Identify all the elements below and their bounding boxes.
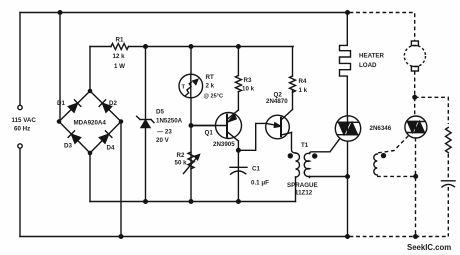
wire Q1 collector down (237, 141, 239, 150)
diode D2 (99, 100, 112, 113)
svg-text:SeekIC.com: SeekIC.com (407, 243, 451, 252)
node dashed junction dot (413, 96, 417, 100)
node triac bottom rail (346, 235, 350, 239)
wire timing node to Q2 emitter (238, 123, 266, 150)
node R3 top (237, 45, 241, 49)
svg-text:D5: D5 (156, 109, 164, 116)
wire to R1 (90, 46, 111, 48)
node bridge right corner (119, 120, 122, 123)
gate coil for triac2 (374, 154, 377, 175)
svg-text:R4: R4 (299, 78, 307, 85)
wire common rail (90, 201, 296, 203)
svg-text:Q1: Q1 (205, 130, 214, 137)
node bridge top corner (88, 89, 91, 92)
triac TR1 2N6346 (335, 116, 360, 141)
wire dashed gate coil bottom (377, 175, 416, 177)
wire Q1 base (191, 125, 227, 127)
zener D5 1N5250A (137, 116, 154, 127)
svg-text:D3: D3 (64, 143, 72, 150)
svg-text:2 k: 2 k (206, 83, 215, 90)
wire left vertical to upper terminal (19, 13, 21, 106)
node D5 top (144, 45, 148, 49)
resistor R3 10k (235, 76, 241, 92)
svg-text:LOAD: LOAD (359, 62, 377, 69)
svg-text:12 k: 12 k (113, 53, 126, 60)
svg-text:@ 25°C: @ 25°C (204, 94, 224, 100)
svg-text:R2: R2 (177, 152, 185, 159)
snubber capacitor (442, 181, 456, 187)
node RT top (189, 45, 193, 49)
motor alternate load dashed circle (404, 45, 425, 66)
node D5 bottom (144, 200, 148, 204)
wire dashed snubber lower (447, 154, 449, 180)
node bridge left corner (57, 120, 60, 123)
wire T1 secondary top to triac gate (310, 139, 340, 154)
snubber resistor (446, 127, 452, 152)
node T1 secondary polarity dot (313, 154, 317, 158)
wire Q2 B1 to T1 primary (292, 133, 296, 154)
svg-text:MDA920A4: MDA920A4 (74, 120, 107, 127)
triac TR2 2N6346 (405, 116, 427, 138)
svg-text:R3: R3 (244, 77, 252, 84)
svg-text:1N5250A: 1N5250A (156, 118, 183, 125)
wire dashed junction to triac2 (414, 97, 416, 116)
node bridge bottom rail junction (119, 235, 123, 239)
svg-text:T: T (182, 85, 186, 91)
node bridge bottom corner (88, 151, 91, 154)
resistor R1 12k 1W (111, 44, 129, 50)
capacitor C1 0.1uF (230, 150, 247, 201)
heater load element (340, 13, 351, 116)
wire dashed junction to snubber (415, 97, 449, 124)
wire T1 secondary bottom to MT1 line (310, 177, 348, 178)
wire triac MT2 (347, 116, 349, 123)
svg-text:2N4870: 2N4870 (266, 98, 288, 105)
rheostat R2 50k (184, 152, 200, 174)
terminal lower 115VAC (18, 144, 22, 148)
svg-text:2N6346: 2N6346 (370, 125, 392, 132)
wire triac MT1 to bottom rail (347, 141, 349, 236)
svg-text:HEATER: HEATER (359, 53, 385, 60)
wire bridge right corner to bottom rail (120, 122, 122, 237)
svg-text:— 23: — 23 (157, 129, 172, 136)
svg-text:11Z12: 11Z12 (295, 190, 313, 197)
node R2 bottom (189, 200, 193, 204)
svg-text:20 V: 20 V (156, 137, 170, 144)
svg-text:10 k: 10 k (242, 86, 255, 93)
node triac2 bottom rail dot (414, 235, 418, 239)
diode D3 (68, 131, 81, 144)
node timing node (237, 149, 241, 153)
svg-text:D2: D2 (109, 100, 117, 107)
wire RT R2 branch (190, 47, 192, 202)
wire dashed bottom rail (350, 236, 449, 238)
wire bridge minus output (89, 153, 91, 202)
wire bridge plus output up (89, 47, 91, 92)
motor brush tab top (411, 41, 418, 46)
transformer T1 secondary winding (304, 153, 309, 176)
wire dashed gate coil top (378, 136, 408, 153)
wire T1 primary bottom to common rail (295, 177, 297, 202)
node MT1 tap (346, 175, 350, 179)
svg-text:50 k: 50 k (175, 160, 188, 167)
wire R3 top (237, 47, 239, 76)
wire dashed top to motor (350, 13, 415, 42)
svg-text:115 VAC: 115 VAC (12, 117, 37, 124)
svg-text:60 Hz: 60 Hz (14, 126, 30, 133)
svg-text:D1: D1 (57, 100, 65, 107)
wire dashed triac2 MT1 down (415, 138, 417, 237)
svg-text:SPRAGUE: SPRAGUE (287, 182, 318, 189)
diode D1 (68, 100, 81, 113)
node T1 primary polarity dot (288, 154, 292, 158)
wire dashed motor to junction (414, 71, 416, 97)
wire top rail (20, 12, 348, 14)
transistor Q1 2N3905 (191, 110, 242, 141)
node C1 bottom (237, 200, 241, 204)
wire bottom rail (20, 236, 348, 238)
motor brush tab bottom (411, 66, 418, 71)
transformer T1 primary winding (296, 153, 300, 177)
node Q1 base junction (189, 124, 193, 128)
wire Q2 B2 to R4 (292, 91, 294, 110)
wire R4 top to rail corner (292, 47, 295, 77)
svg-text:T1: T1 (301, 142, 309, 149)
wire lower terminal to bottom rail (19, 149, 21, 237)
wire dashed snubber cap to rail (447, 187, 449, 237)
resistor R4 1k (290, 76, 296, 92)
svg-text:RT: RT (206, 74, 214, 81)
wire plus rail (129, 46, 294, 48)
svg-text:R1: R1 (116, 37, 124, 44)
node top rail to bridge (58, 11, 62, 15)
svg-text:1 W: 1 W (114, 63, 125, 70)
svg-text:D4: D4 (107, 145, 115, 152)
node triac2 winding tap dot (414, 175, 418, 179)
svg-text:0.1 μF: 0.1 μF (251, 180, 269, 187)
unijunction transistor Q2 2N4870 (266, 110, 293, 139)
svg-text:2N3905: 2N3905 (213, 141, 235, 148)
wire bridge AC feed (59, 13, 61, 121)
node gate coil polarity dot (382, 154, 386, 158)
wire Q1 emitter to R3 (237, 92, 239, 111)
bridge MDA920A4 diamond (59, 91, 121, 153)
svg-text:1 k: 1 k (299, 87, 308, 94)
terminal upper 115VAC (18, 105, 22, 109)
wire D5 branch (145, 47, 147, 202)
thermistor RT 2k (179, 74, 203, 98)
node heater top (346, 11, 350, 15)
diode D4 (99, 131, 112, 144)
svg-text:C1: C1 (252, 166, 260, 173)
